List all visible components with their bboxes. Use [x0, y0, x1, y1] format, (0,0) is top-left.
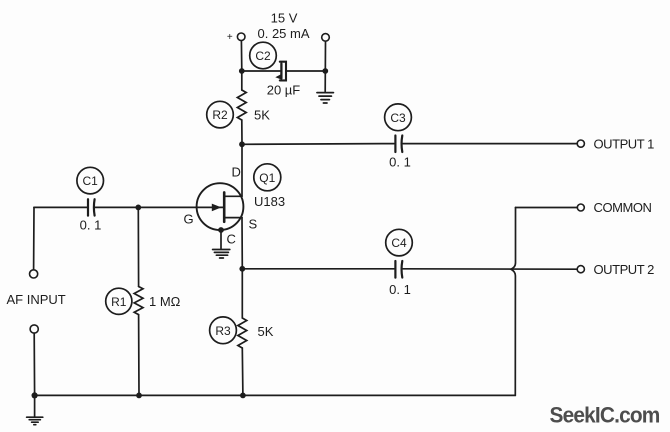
svg-text:C1: C1 — [83, 174, 99, 188]
capacitor C3 left plate — [394, 136, 396, 153]
svg-text:R3: R3 — [215, 324, 231, 338]
transistor Q1 body circle — [197, 183, 244, 230]
resistor R3 ref circle — [210, 317, 237, 344]
wire common terminal to vertical — [516, 207, 578, 209]
transistor Q1 gate arrowhead — [212, 204, 222, 212]
ground transistor case — [213, 250, 230, 259]
capacitor C1 ref circle — [77, 167, 104, 194]
supply positive terminal — [237, 33, 245, 41]
junction supply node — [239, 68, 245, 74]
svg-text:C3: C3 — [390, 111, 406, 125]
terminal COMMON — [577, 204, 584, 211]
wire input drop to upper terminal — [33, 207, 35, 269]
svg-text:AF INPUT: AF INPUT — [7, 292, 66, 307]
svg-text:0. 1: 0. 1 — [389, 155, 411, 170]
capacitor C2 right bracket plate — [280, 62, 286, 81]
capacitor C2 ref circle — [250, 42, 277, 69]
junction drain node — [239, 141, 245, 147]
svg-text:G: G — [184, 212, 194, 227]
wire R2 bottom to drain node — [241, 120, 243, 144]
wire C2 right plate to ground node — [287, 70, 326, 72]
wire node down to R2 — [241, 71, 243, 90]
svg-text:1 MΩ: 1 MΩ — [149, 294, 181, 309]
svg-text:C4: C4 — [391, 236, 407, 250]
svg-text:5K: 5K — [258, 324, 274, 339]
capacitor C3 ref circle — [385, 104, 412, 131]
transistor Q1 ref circle — [254, 164, 281, 191]
capacitor C2 polarity arrow — [275, 74, 281, 80]
svg-text:0. 1: 0. 1 — [80, 218, 102, 233]
resistor R3 zigzag — [238, 269, 247, 348]
wire gate node down to R1 — [137, 207, 139, 286]
wire source node to C4 — [242, 268, 394, 270]
capacitor C3 right plate — [400, 136, 403, 153]
capacitor C1 left plate — [87, 199, 89, 215]
wire bottom rail — [35, 394, 516, 396]
wire C3 to output1 terminal — [403, 143, 577, 145]
svg-text:+: + — [227, 32, 233, 43]
svg-text:20 µF: 20 µF — [267, 83, 301, 98]
svg-text:C: C — [227, 232, 236, 247]
junction source node — [239, 266, 245, 272]
capacitor C4 ref circle — [386, 229, 413, 256]
terminal AF input lower — [30, 325, 38, 333]
svg-text:R2: R2 — [212, 108, 228, 122]
ground bottom left — [27, 417, 43, 425]
junction bottom R3 — [240, 393, 246, 399]
wire source to output2 node — [241, 218, 243, 269]
ground supply return — [317, 93, 333, 103]
wire case to ground — [220, 230, 222, 249]
transistor Q1 drain stub — [224, 195, 242, 197]
svg-text:0. 25 mA: 0. 25 mA — [257, 26, 309, 41]
terminal OUTPUT 2 — [577, 266, 584, 273]
svg-text:S: S — [249, 217, 258, 232]
svg-text:OUTPUT 1: OUTPUT 1 — [594, 136, 655, 151]
svg-text:U183: U183 — [254, 194, 285, 209]
svg-text:Q1: Q1 — [259, 171, 275, 185]
wire supply+ down to node — [240, 41, 242, 71]
svg-text:5K: 5K — [254, 108, 270, 123]
wire lower terminal to bottom rail — [33, 333, 35, 395]
svg-text:COMMON: COMMON — [594, 200, 652, 215]
wire C1 to gate junction — [95, 206, 138, 208]
transistor Q1 channel bar — [223, 192, 226, 221]
junction bottom R1 — [136, 393, 142, 399]
svg-text:OUTPUT 2: OUTPUT 2 — [594, 262, 655, 277]
wire node to C2 left plate — [242, 70, 280, 72]
wire input left segment — [34, 206, 87, 208]
svg-text:0. 1: 0. 1 — [389, 282, 411, 297]
svg-text:R1: R1 — [111, 295, 127, 309]
transistor Q1 source stub — [224, 217, 242, 219]
wire drain node down to transistor drain — [241, 144, 243, 196]
resistor R2 ref circle — [207, 101, 234, 128]
svg-text:15 V: 15 V — [271, 11, 298, 26]
svg-text:C2: C2 — [255, 49, 271, 63]
capacitor C2 left plate — [280, 64, 282, 79]
terminal OUTPUT 1 — [577, 140, 584, 147]
junction supply return node — [322, 68, 328, 74]
capacitor C4 left plate — [394, 261, 396, 278]
wire supply- down to node and ground — [324, 41, 326, 91]
wire gate from input junction — [138, 206, 223, 208]
wire R1 bottom to rail — [138, 315, 140, 396]
capacitor C4 right plate — [400, 261, 403, 278]
resistor R1 ref circle — [106, 288, 132, 314]
terminal AF input upper — [29, 270, 37, 278]
svg-text:SeekIC.com: SeekIC.com — [550, 402, 660, 427]
wire bottom-left ground stub — [34, 395, 36, 416]
wire drain node to C3 — [242, 143, 394, 146]
resistor R2 zigzag — [237, 90, 246, 120]
supply negative terminal — [322, 34, 330, 42]
wire C4 to output2 terminal — [403, 268, 577, 270]
transistor Q1 case dot — [218, 227, 224, 233]
capacitor C1 right plate — [93, 199, 96, 215]
wire common vertical with hopover — [511, 208, 516, 396]
wire R3 bottom to rail — [241, 348, 244, 395]
junction bottom left — [31, 392, 37, 398]
junction gate node — [135, 205, 141, 211]
resistor R1 zigzag — [134, 287, 143, 315]
svg-text:D: D — [232, 165, 241, 180]
